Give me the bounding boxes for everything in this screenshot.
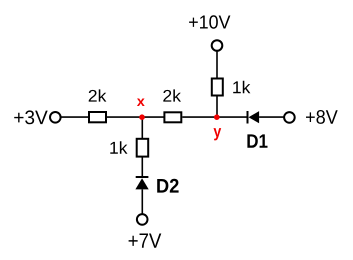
terminal +10V bbox=[212, 40, 223, 51]
wire D1 to +8V terminal bbox=[259, 116, 284, 118]
label +7V bbox=[129, 234, 162, 248]
label +10V bbox=[189, 15, 230, 28]
label 2k (R2) bbox=[163, 89, 181, 101]
label 1k (R4) bbox=[110, 141, 127, 154]
node y label bbox=[214, 128, 222, 140]
node x dot bbox=[139, 114, 145, 120]
label +3V bbox=[14, 110, 48, 124]
terminal +3V bbox=[50, 112, 61, 123]
wire R4 to D2 bbox=[141, 157, 143, 177]
wire R2 to node y bbox=[182, 116, 217, 118]
wire R3 to node y bbox=[216, 96, 218, 118]
terminal +8V bbox=[284, 112, 295, 123]
diode D1 cathode bar bbox=[247, 111, 249, 124]
wire node y to D1 bbox=[217, 116, 249, 118]
node y dot bbox=[214, 114, 220, 120]
node x label bbox=[137, 99, 145, 107]
wire R1 to node x bbox=[107, 116, 142, 118]
resistor R2 2k bbox=[164, 112, 181, 122]
resistor R1 2k bbox=[89, 112, 106, 122]
wire +3V terminal to R1 bbox=[61, 116, 90, 118]
label 2k (R1) bbox=[89, 89, 107, 101]
terminal +7V bbox=[137, 214, 148, 225]
diode D2 triangle bbox=[135, 178, 148, 189]
wire +10V terminal to R3 bbox=[216, 51, 218, 79]
wire D2 to +7V terminal bbox=[141, 189, 143, 214]
wire node x to R2 bbox=[142, 116, 164, 118]
label D1 bbox=[247, 134, 267, 147]
wire node x down to R4 bbox=[141, 117, 143, 139]
diode D1 triangle bbox=[249, 111, 260, 123]
resistor R4 1k bbox=[137, 139, 149, 157]
label +8V bbox=[306, 110, 338, 124]
label D2 bbox=[157, 179, 178, 193]
label 1k (R3) bbox=[233, 81, 250, 93]
resistor R3 1k bbox=[212, 79, 223, 96]
diode D2 cathode bar bbox=[136, 176, 149, 178]
